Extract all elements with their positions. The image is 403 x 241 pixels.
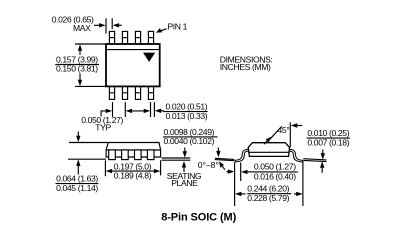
svg-text:0.013 (0.33): 0.013 (0.33) xyxy=(166,111,208,121)
svg-text:0.045 (1.14): 0.045 (1.14) xyxy=(56,183,98,193)
svg-text:MAX: MAX xyxy=(73,23,91,33)
svg-text:INCHES (MM): INCHES (MM) xyxy=(220,62,271,72)
svg-text:0.150 (3.81): 0.150 (3.81) xyxy=(56,64,98,74)
svg-text:0.050 (1.27): 0.050 (1.27) xyxy=(254,162,296,172)
svg-text:0.016 (0.40): 0.016 (0.40) xyxy=(254,171,296,181)
svg-text:0.228 (5.79): 0.228 (5.79) xyxy=(247,193,289,203)
svg-text:PLANE: PLANE xyxy=(171,178,198,188)
svg-text:8-Pin SOIC (M): 8-Pin SOIC (M) xyxy=(161,212,236,224)
svg-text:PIN 1: PIN 1 xyxy=(167,22,187,32)
svg-text:0.0040 (0.102): 0.0040 (0.102) xyxy=(164,136,215,146)
svg-text:0.007 (0.18): 0.007 (0.18) xyxy=(307,138,349,148)
svg-text:0.010 (0.25): 0.010 (0.25) xyxy=(307,128,349,138)
svg-text:45°: 45° xyxy=(278,125,290,135)
svg-text:TYP: TYP xyxy=(95,122,111,132)
svg-text:0.189 (4.8): 0.189 (4.8) xyxy=(114,170,152,180)
svg-text:0°–8°: 0°–8° xyxy=(198,160,219,170)
